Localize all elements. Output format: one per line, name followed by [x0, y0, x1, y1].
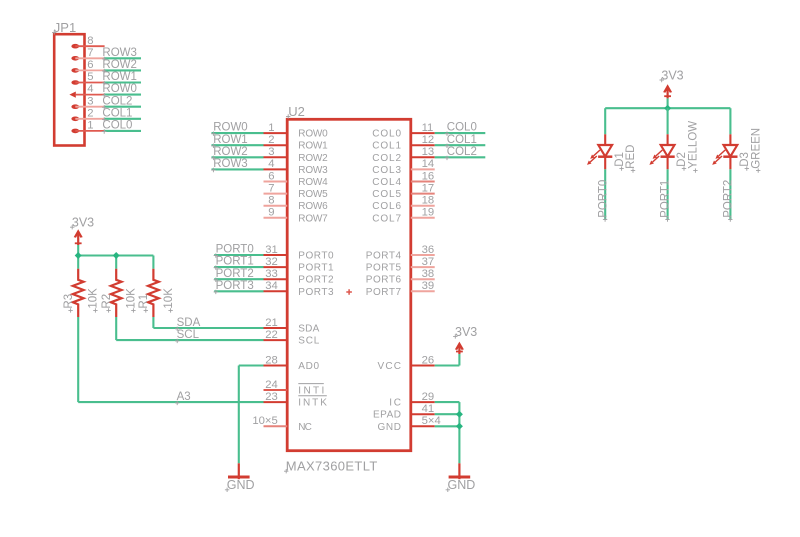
svg-text:41: 41: [422, 403, 435, 415]
svg-text:R2: R2: [101, 294, 113, 309]
net label COL0 at JP1: [102, 120, 132, 134]
svg-text:SDA: SDA: [177, 317, 201, 329]
wire net PORT1 at U2: [214, 266, 263, 268]
svg-text:YELLOW: YELLOW: [688, 121, 700, 169]
JP1 refdes label: [52, 20, 76, 35]
svg-text:PORT3: PORT3: [298, 287, 334, 298]
svg-text:18: 18: [422, 195, 435, 207]
U2 pin 8 ROW6: [264, 195, 329, 213]
wire net ROW2 at U2: [212, 156, 264, 158]
wire GND pin net: [435, 425, 460, 427]
wire net COL2 at JP1: [105, 106, 141, 108]
wire AD0 net to ground: [239, 366, 264, 464]
svg-text:21: 21: [265, 317, 278, 329]
ground symbol GND (right): [446, 463, 476, 492]
junction at R3 top: [75, 252, 82, 259]
svg-text:RED: RED: [625, 145, 637, 169]
U2 pin 37 PORT5: [366, 256, 435, 274]
ground symbol GND (left): [225, 463, 255, 492]
U2 pin 19 COL7: [372, 207, 435, 225]
JP1 pin 6: [71, 59, 104, 73]
net label ROW3 at JP1: [102, 47, 137, 61]
R1 value label 10K: [163, 288, 175, 313]
JP1 pin 2: [71, 107, 104, 121]
U2 pin 10x5 NC: [252, 415, 312, 433]
svg-text:2: 2: [268, 134, 274, 146]
svg-text:COL1: COL1: [372, 141, 401, 152]
LED D2 YELLOW: [649, 134, 674, 169]
D3 value label GREEN: [750, 128, 762, 173]
junction at GND pin: [456, 423, 463, 430]
net label A3: [175, 391, 191, 405]
svg-text:COL2: COL2: [372, 153, 401, 164]
svg-text:34: 34: [265, 280, 278, 292]
svg-text:28: 28: [265, 354, 278, 366]
svg-text:ROW2: ROW2: [213, 146, 248, 158]
JP1 pin 1: [71, 120, 104, 134]
svg-text:COL1: COL1: [102, 107, 132, 119]
svg-text:ROW1: ROW1: [213, 134, 248, 146]
svg-text:33: 33: [265, 268, 278, 280]
U2 pin 33 PORT2: [264, 268, 334, 286]
JP1 pin 5: [71, 71, 104, 85]
U2 pin 21 SDA: [264, 317, 320, 335]
U2 part origin cross: [346, 289, 352, 295]
net label PORT0 at U2: [214, 244, 254, 258]
svg-text:3V3: 3V3: [661, 68, 683, 82]
U2 pin 29 IC: [389, 391, 435, 409]
svg-text:JP1: JP1: [54, 20, 76, 35]
power symbol 3V3 (VCC): [453, 325, 477, 354]
power symbol 3V3 (LEDs): [660, 68, 684, 98]
svg-text:COL2: COL2: [447, 146, 477, 158]
U2 pin 28 AD0: [264, 354, 320, 372]
U2 pin 34 PORT3: [264, 280, 334, 298]
svg-text:EPAD: EPAD: [373, 410, 401, 421]
svg-text:GND: GND: [227, 478, 255, 492]
svg-text:ROW0: ROW0: [298, 129, 328, 140]
svg-text:1: 1: [87, 120, 93, 132]
svg-text:COL3: COL3: [372, 165, 401, 176]
svg-text:COL2: COL2: [102, 95, 132, 107]
svg-text:GND: GND: [448, 478, 476, 492]
U2 refdes label: [286, 104, 305, 119]
wire IC pin 29 net: [435, 401, 460, 403]
wire net ROW0 at JP1: [105, 94, 141, 96]
wire EPAD pin 41 net: [435, 413, 460, 415]
svg-text:ROW3: ROW3: [102, 47, 136, 59]
U2 pin 24 INTI: [264, 379, 325, 397]
svg-text:10×5: 10×5: [252, 415, 277, 427]
wire net ROW0 at U2: [212, 132, 264, 134]
U2 pin 9 ROW7: [264, 207, 329, 225]
U2 pin 23 INTK: [264, 391, 328, 409]
U2 pin 1 ROW0: [264, 122, 329, 140]
D3 refdes label: [739, 152, 751, 171]
U2 pin 5x4 GND: [378, 415, 441, 433]
U2 pin 39 PORT7: [366, 280, 435, 298]
svg-text:19: 19: [422, 207, 435, 219]
power symbol 3V3 (pull-ups): [70, 216, 94, 245]
U2 pin 31 PORT0: [264, 244, 334, 262]
wire VCC net to 3V3: [435, 354, 460, 366]
svg-text:SCL: SCL: [177, 329, 200, 341]
net label SCL: [175, 329, 200, 343]
svg-text:ROW5: ROW5: [298, 189, 328, 200]
net label ROW1 at U2: [211, 134, 248, 148]
svg-text:GND: GND: [378, 422, 402, 433]
svg-text:3V3: 3V3: [455, 325, 477, 339]
svg-text:ROW0: ROW0: [102, 83, 136, 95]
wire anode D3: [729, 108, 731, 134]
JP1 pin 3: [71, 95, 104, 109]
svg-text:COL0: COL0: [447, 122, 477, 134]
wire net PORT0 at U2: [214, 254, 263, 256]
JP1 pin 7: [71, 47, 104, 61]
wire net ROW1 at JP1: [105, 81, 141, 83]
resistor R3 10K: [73, 269, 84, 317]
svg-text:NC: NC: [298, 422, 312, 433]
svg-text:6: 6: [87, 59, 93, 71]
net label ROW2 at JP1: [102, 59, 137, 73]
svg-text:38: 38: [422, 268, 435, 280]
R3 value label 10K: [88, 288, 100, 313]
net label PORT3 at U2: [214, 280, 254, 294]
U2 pin 38 PORT6: [366, 268, 435, 286]
wire net PORT3 at U2: [214, 290, 263, 292]
svg-text:10K: 10K: [88, 288, 100, 309]
svg-text:ROW1: ROW1: [298, 141, 328, 152]
svg-text:16: 16: [422, 170, 435, 182]
U2 pin 6 ROW4: [264, 170, 329, 188]
svg-text:10K: 10K: [163, 288, 175, 309]
net label ROW0 at U2: [211, 122, 248, 136]
svg-text:A3: A3: [177, 391, 191, 403]
svg-text:R3: R3: [63, 294, 75, 309]
LED D3 GREEN: [712, 134, 737, 169]
U2 pin 32 PORT1: [264, 256, 334, 274]
R2 refdes label: [101, 294, 113, 313]
U2 pin 2 ROW1: [264, 134, 329, 152]
svg-text:24: 24: [265, 379, 278, 391]
svg-text:PORT3: PORT3: [216, 280, 254, 292]
svg-text:32: 32: [265, 256, 278, 268]
net label PORT2 at LED D3: [723, 180, 735, 222]
wire cathode D3 to PORT2: [729, 169, 731, 219]
wire ground bus vertical: [458, 402, 460, 463]
svg-text:1: 1: [268, 122, 274, 134]
JP1 pin 4: [69, 83, 104, 98]
svg-text:39: 39: [422, 280, 435, 292]
connector JP1 body: [54, 34, 84, 145]
svg-text:23: 23: [265, 391, 278, 403]
wire cathode D2 to PORT1: [667, 169, 669, 219]
svg-text:PORT4: PORT4: [366, 251, 402, 262]
svg-text:5: 5: [87, 71, 93, 83]
U2 pin 7 ROW5: [264, 182, 329, 200]
svg-text:9: 9: [268, 207, 274, 219]
svg-text:AD0: AD0: [298, 361, 319, 372]
svg-text:3: 3: [268, 146, 274, 158]
svg-text:11: 11: [422, 122, 434, 134]
junction at LED rail: [664, 105, 671, 112]
wire net ROW1 at U2: [212, 144, 264, 146]
svg-text:PORT1: PORT1: [298, 263, 334, 274]
U2 pin 4 ROW3: [264, 158, 329, 176]
wire net PORT2 at U2: [214, 278, 263, 280]
svg-text:PORT0: PORT0: [597, 180, 609, 218]
svg-text:ROW0: ROW0: [213, 122, 248, 134]
wire 3V3 LED rail: [605, 98, 730, 108]
U2 pin 3 ROW2: [264, 146, 329, 164]
svg-text:31: 31: [265, 244, 278, 256]
svg-text:PORT0: PORT0: [298, 251, 334, 262]
svg-text:22: 22: [265, 329, 278, 341]
svg-text:COL4: COL4: [372, 177, 401, 188]
wire net ROW3 at JP1: [105, 57, 141, 59]
U2 pin 16 COL4: [372, 170, 435, 188]
svg-text:COL1: COL1: [447, 134, 477, 146]
svg-text:PORT2: PORT2: [723, 180, 735, 218]
net label COL0 at U2: [445, 122, 477, 136]
D2 value label YELLOW: [688, 121, 700, 173]
svg-text:ROW7: ROW7: [298, 213, 328, 224]
net label PORT2 at U2: [214, 268, 254, 282]
svg-text:IC: IC: [389, 398, 401, 409]
svg-text:COL5: COL5: [372, 189, 401, 200]
D1 value label RED: [625, 145, 637, 173]
svg-text:PORT7: PORT7: [366, 287, 402, 298]
svg-text:PORT1: PORT1: [216, 256, 254, 268]
svg-text:ROW2: ROW2: [102, 59, 136, 71]
wire net SCL (R2 to U2 pin 22): [116, 317, 263, 340]
U2 pin 22 SCL: [264, 329, 320, 347]
svg-text:7: 7: [268, 182, 274, 194]
svg-text:8: 8: [87, 35, 93, 47]
svg-text:MAX7360ETLT: MAX7360ETLT: [286, 459, 378, 474]
svg-text:37: 37: [422, 256, 435, 268]
net label COL2 at U2: [445, 146, 477, 160]
net label ROW3 at U2: [211, 158, 248, 172]
net label COL1 at JP1: [102, 107, 132, 121]
svg-text:ROW1: ROW1: [102, 71, 136, 83]
svg-text:ROW3: ROW3: [213, 158, 248, 170]
svg-text:13: 13: [422, 146, 435, 158]
wire net COL1 at JP1: [105, 118, 141, 120]
svg-text:4: 4: [87, 83, 93, 95]
wire 3V3 rail to resistors: [78, 245, 153, 269]
U2 pin 17 COL5: [372, 182, 435, 200]
svg-text:14: 14: [422, 158, 435, 170]
svg-text:PORT1: PORT1: [660, 180, 672, 218]
svg-text:SDA: SDA: [298, 324, 319, 335]
net label ROW1 at JP1: [102, 71, 137, 85]
svg-text:SCL: SCL: [298, 336, 319, 347]
net label COL1 at U2: [445, 134, 477, 148]
svg-text:6: 6: [268, 170, 274, 182]
svg-text:3V3: 3V3: [72, 216, 94, 230]
svg-text:COL6: COL6: [372, 201, 401, 212]
R2 value label 10K: [126, 288, 138, 313]
svg-text:10K: 10K: [126, 288, 138, 309]
svg-text:4: 4: [268, 158, 274, 170]
svg-text:PORT0: PORT0: [216, 244, 254, 256]
net label PORT1 at LED D2: [660, 180, 672, 222]
resistor R2 10K: [111, 269, 122, 317]
U2 pin 11 COL0: [372, 122, 435, 140]
svg-text:PORT5: PORT5: [366, 263, 402, 274]
svg-text:VCC: VCC: [378, 361, 402, 372]
D2 refdes label: [676, 152, 688, 171]
U2 pin 41 EPAD: [373, 403, 435, 421]
U2 value label MAX7360ETLT: [284, 459, 377, 474]
svg-text:ROW2: ROW2: [298, 153, 328, 164]
svg-text:INTK: INTK: [298, 398, 327, 409]
svg-text:R1: R1: [138, 294, 150, 309]
net label COL2 at JP1: [102, 95, 132, 109]
U2 pin 14 COL3: [372, 158, 435, 176]
U2 pin 12 COL1: [372, 134, 435, 152]
wire net SDA (R1 to U2 pin 21): [153, 317, 263, 328]
junction at R2 top: [113, 252, 120, 259]
net label ROW2 at U2: [211, 146, 248, 160]
svg-text:7: 7: [87, 47, 93, 59]
junction at EPAD: [456, 411, 463, 418]
wire anode D2: [667, 108, 669, 134]
wire net A3 (R3 to U2 pin 23): [78, 317, 263, 402]
svg-text:8: 8: [268, 195, 274, 207]
svg-text:ROW4: ROW4: [298, 177, 328, 188]
U2 pin 36 PORT4: [366, 244, 435, 262]
R1 refdes label: [138, 294, 150, 313]
U2 pin 18 COL6: [372, 195, 435, 213]
LED D1 RED: [587, 134, 612, 169]
svg-text:ROW3: ROW3: [298, 165, 328, 176]
wire cathode D1 to PORT0: [604, 169, 606, 219]
svg-text:GREEN: GREEN: [750, 128, 762, 169]
wire net ROW2 at JP1: [105, 69, 141, 71]
wire net COL1 at U2: [435, 144, 486, 146]
wire net ROW3 at U2: [212, 168, 264, 170]
svg-text:PORT6: PORT6: [366, 275, 402, 286]
svg-text:26: 26: [422, 354, 435, 366]
R3 refdes label: [63, 294, 75, 313]
wire net COL2 at U2: [435, 156, 486, 158]
svg-text:3: 3: [87, 95, 93, 107]
svg-text:2: 2: [87, 107, 93, 119]
svg-text:PORT2: PORT2: [216, 268, 254, 280]
resistor R1 10K: [148, 269, 159, 317]
svg-text:17: 17: [422, 182, 435, 194]
svg-text:PORT2: PORT2: [298, 275, 334, 286]
svg-text:D2: D2: [676, 152, 688, 167]
wire net COL0 at JP1: [105, 130, 141, 132]
D1 refdes label: [614, 152, 626, 171]
net label PORT0 at LED D1: [597, 180, 609, 222]
svg-text:29: 29: [422, 391, 435, 403]
IC U2 body (MAX7360ETLT): [287, 119, 411, 450]
svg-text:D3: D3: [739, 152, 751, 167]
svg-text:D1: D1: [614, 152, 626, 167]
svg-text:COL0: COL0: [372, 129, 401, 140]
JP1 pin 8: [71, 35, 104, 49]
svg-text:36: 36: [422, 244, 435, 256]
wire net COL0 at U2: [435, 132, 486, 134]
net label PORT1 at U2: [214, 256, 254, 270]
svg-text:12: 12: [422, 134, 435, 146]
U2 pin 13 COL2: [372, 146, 435, 164]
wire anode D1: [604, 108, 606, 134]
U2 pin 26 VCC: [378, 354, 435, 372]
svg-text:INTI: INTI: [298, 386, 324, 397]
svg-text:COL7: COL7: [372, 213, 401, 224]
net label ROW0 at JP1: [102, 83, 137, 97]
svg-text:U2: U2: [288, 104, 305, 119]
svg-text:COL0: COL0: [102, 120, 132, 132]
svg-text:ROW6: ROW6: [298, 201, 328, 212]
net label SDA: [175, 317, 201, 331]
